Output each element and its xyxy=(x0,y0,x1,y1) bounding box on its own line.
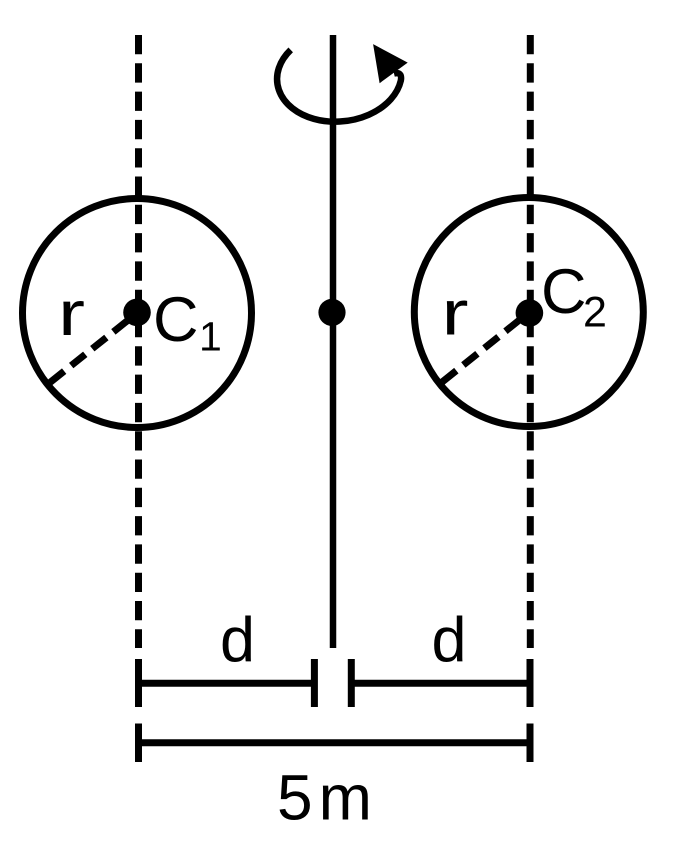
svg-text:C: C xyxy=(541,257,587,327)
svg-text:2: 2 xyxy=(583,289,607,337)
svg-text:d: d xyxy=(220,605,255,675)
svg-text:5m: 5m xyxy=(277,761,378,833)
svg-text:1: 1 xyxy=(199,314,222,360)
svg-text:d: d xyxy=(432,605,467,675)
svg-text:r: r xyxy=(58,279,85,349)
svg-text:r: r xyxy=(442,279,469,349)
svg-text:C: C xyxy=(153,285,199,355)
